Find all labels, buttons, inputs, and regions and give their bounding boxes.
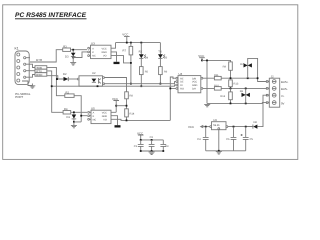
junction (TXD/RXD/D2) <box>56 78 58 80</box>
op-amp U5 optocoupler <box>88 107 111 124</box>
diode D6 TVS <box>240 88 250 103</box>
svg-text:R9: R9 <box>223 65 227 68</box>
svg-text:VCC: VCC <box>188 125 194 129</box>
capacitor C2 <box>149 136 155 151</box>
svg-text:R13: R13 <box>234 83 239 86</box>
svg-text:D6: D6 <box>240 90 244 93</box>
op-amp U4 RS485 transceiver <box>176 72 203 93</box>
resistor R2 <box>65 91 81 122</box>
svg-text:D1: D1 <box>67 116 71 119</box>
wire riser U5.VO / U4 <box>170 77 176 120</box>
VCC output arrow <box>188 125 210 129</box>
capacitor C1 <box>134 140 144 151</box>
wire U3 VCC up <box>111 43 116 49</box>
svg-text:D2: D2 <box>63 73 67 76</box>
wire cap bank top rail <box>141 139 164 141</box>
svg-text:R5: R5 <box>145 70 149 73</box>
diode D1 <box>67 113 77 122</box>
ground (DB9 shell) <box>22 81 35 88</box>
svg-text:R8: R8 <box>130 95 134 98</box>
svg-text:VO: VO <box>103 118 107 121</box>
svg-text:RXD: RXD <box>36 73 42 77</box>
svg-text:C5: C5 <box>250 138 254 141</box>
wire U5 GND down <box>111 116 118 126</box>
resistor R4 <box>63 108 87 114</box>
ground (U6) <box>216 152 222 154</box>
resistor R9 <box>223 62 233 78</box>
svg-text:D3: D3 <box>65 55 69 58</box>
resistor R10 <box>203 84 267 90</box>
wire U5 VO output <box>111 119 170 120</box>
VCC symbol (U4) <box>198 54 205 61</box>
node RXD label box <box>30 73 47 78</box>
resistor R5 <box>140 67 149 88</box>
VCC rail top <box>116 42 161 44</box>
junction D1 bottom <box>73 121 75 123</box>
LED D5 TX <box>158 43 168 67</box>
svg-text:R7: R7 <box>123 50 127 53</box>
wire cap bank bottom rail <box>141 150 164 152</box>
capacitor C5 <box>241 127 254 151</box>
node RTS label box <box>30 69 47 73</box>
ground (cap bank) <box>149 150 155 154</box>
svg-text:C2: C2 <box>150 136 154 139</box>
svg-text:C4: C4 <box>197 138 201 141</box>
svg-text:C6: C6 <box>226 138 230 141</box>
op-amp U3 optocoupler <box>88 42 111 59</box>
svg-text:RO: RO <box>180 88 184 91</box>
svg-text:C1: C1 <box>134 145 138 148</box>
wire U2 out top to R8 drop <box>105 78 127 92</box>
resistor R3 <box>63 46 87 52</box>
resistor R13 <box>229 80 239 89</box>
diode D7 TVS <box>240 58 267 81</box>
wire regulator ground rail <box>206 150 246 152</box>
svg-text:D8: D8 <box>254 121 258 124</box>
ground (D1) <box>71 122 77 128</box>
ground (D3) <box>70 58 76 66</box>
svg-text:VCC: VCC <box>102 47 107 50</box>
svg-text:U2: U2 <box>92 72 96 75</box>
diode D2 <box>63 73 79 81</box>
border frame <box>3 5 298 160</box>
wire U4 supply vertical <box>206 60 208 103</box>
svg-text:RX: RX <box>139 51 143 54</box>
svg-text:R14: R14 <box>130 112 135 115</box>
wire RTS vertical <box>47 71 63 112</box>
svg-text:R12: R12 <box>220 95 225 98</box>
capacitor C4 <box>197 127 208 151</box>
resistor R7 <box>123 42 133 85</box>
ground (U4 area) <box>204 104 210 106</box>
wire ground rail <box>207 102 267 105</box>
junction R4/D1 <box>73 111 75 113</box>
svg-text:PORT: PORT <box>15 95 23 99</box>
LED D4 RX <box>139 42 149 67</box>
capacitor C6 <box>226 127 236 151</box>
title PC RS485 INTERFACE <box>15 12 87 19</box>
svg-text:R6: R6 <box>164 70 168 73</box>
wire K-link to U5 <box>74 116 87 122</box>
resistor R8 <box>125 92 134 109</box>
transistor U2 optocoupler <box>77 72 104 86</box>
svg-text:BUS+: BUS+ <box>281 80 289 84</box>
svg-text:GND: GND <box>102 51 108 54</box>
wire TXD vertical <box>47 67 65 95</box>
wire bus1 (U2 out bottom to U4) <box>105 82 176 84</box>
svg-text:VCC: VCC <box>122 33 128 37</box>
wire K-link to U3 <box>73 52 87 58</box>
resistor R14 <box>125 109 135 122</box>
connector K1 DB9 PC-SERIAL PORT <box>15 47 31 100</box>
wire bus2 (RTS/DE) <box>52 85 176 86</box>
resistor R11 <box>203 74 258 80</box>
junction D3 bottom <box>72 57 74 59</box>
svg-text:D4: D4 <box>145 57 149 60</box>
svg-text:V+: V+ <box>281 94 285 98</box>
VCC rail right <box>202 60 231 62</box>
wire U3 GND down <box>111 52 117 62</box>
svg-text:D5: D5 <box>164 57 168 60</box>
diode D8 <box>246 121 261 129</box>
svg-text:GND: GND <box>102 115 108 118</box>
node A junction R3/D3 <box>72 49 74 51</box>
ground (U5) thick bar <box>115 125 121 127</box>
svg-text:VO: VO <box>103 55 107 58</box>
svg-text:D/A: D/A <box>192 88 196 91</box>
VCC symbol (top) <box>122 33 129 44</box>
VCC symbol (U5) <box>111 97 127 113</box>
wire U3 VO jog <box>111 56 131 63</box>
ground (U3) thick bar <box>114 62 120 64</box>
svg-text:PC RS485 INTERFACE: PC RS485 INTERFACE <box>15 12 87 19</box>
wire RXD to D2 node <box>47 76 64 79</box>
node TXD label box <box>30 64 47 70</box>
voltage regulator U6 78L05 <box>210 119 253 151</box>
diode D3 <box>65 51 76 59</box>
svg-text:78L05: 78L05 <box>213 124 220 127</box>
resistor R6 <box>159 67 168 85</box>
svg-text:0V: 0V <box>281 101 285 105</box>
svg-text:BUS-: BUS- <box>281 87 288 91</box>
capacitor C3 <box>160 140 169 151</box>
VCC symbol (cap bank) <box>137 131 144 140</box>
wire DTR <box>30 50 63 63</box>
svg-text:K1: K1 <box>15 47 19 51</box>
connector J2 <box>266 76 279 108</box>
svg-text:NC: NC <box>93 118 97 121</box>
resistor R12 <box>220 88 232 103</box>
wire V+ drop <box>260 95 267 126</box>
svg-text:NC: NC <box>92 55 96 58</box>
